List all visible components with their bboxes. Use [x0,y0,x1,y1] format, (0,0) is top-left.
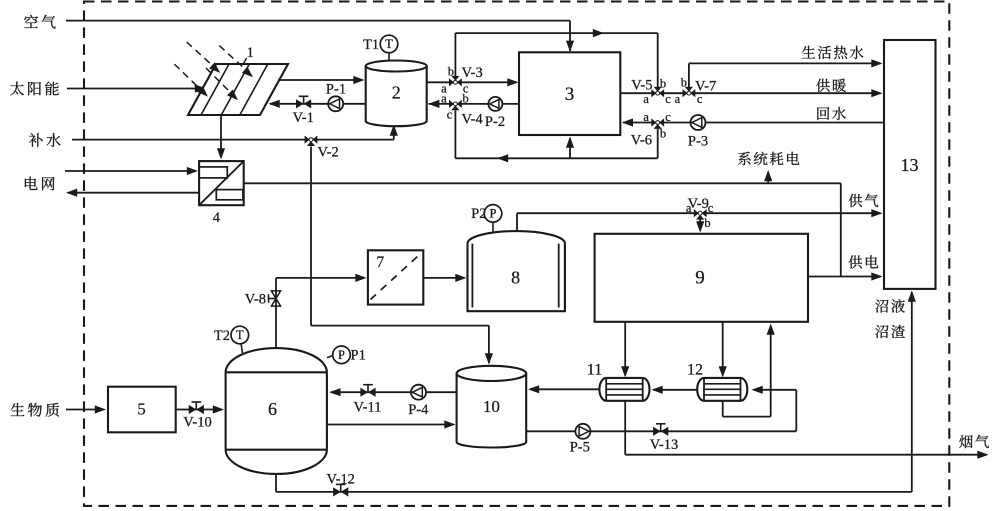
wire digester 6 bottom digestate line [275,473,277,492]
svg-text:P-1: P-1 [326,82,346,98]
arrow grid export [66,189,77,197]
svg-text:a: a [643,110,649,124]
svg-text:V-10: V-10 [183,414,211,430]
label makeup water (bushui) [29,133,43,147]
svg-text:V-8: V-8 [245,291,266,307]
wire V-6 b drop [657,129,659,158]
label power supply (gongdian) [849,255,863,268]
svg-text:c: c [447,108,453,122]
sun ray 4 [206,68,231,93]
svg-text:P-3: P-3 [688,133,708,149]
wire makeup water line [72,139,394,141]
arrow air into unit 3 [566,41,574,52]
wire V-8 to unit 7 [275,278,277,291]
svg-text:P2: P2 [471,206,486,222]
wire return water line [623,122,884,124]
valve V-7 [683,89,688,97]
wire digester 6 to tank 10 [327,424,453,426]
svg-text:V-11: V-11 [354,399,382,415]
svg-text:4: 4 [213,210,221,226]
heat supply unit 3 [519,52,620,135]
svg-text:12: 12 [687,362,703,379]
collector stripes [201,64,229,115]
wire CHP 9 to HX 12 [722,322,724,376]
pretreatment unit 5 [108,387,176,433]
svg-text:9: 9 [695,267,705,288]
label air (kongqi) [24,15,38,28]
svg-text:V-2: V-2 [318,144,339,160]
wire CHP 9 to HX 11 [624,322,626,376]
wire HX 12 to HX 11 [654,389,698,391]
svg-text:a: a [441,92,447,106]
valve V-10 [189,405,197,414]
svg-text:P-4: P-4 [408,402,429,418]
valve V-3 [449,78,454,86]
svg-text:V-4: V-4 [462,111,484,127]
wire riser into unit 3 bottom [569,139,571,159]
valve V-5 [651,89,656,97]
wire power supply to user 13 [808,276,881,278]
label domestic hot water (shenghuoreshui) [802,46,815,59]
temperature sensor T1 [388,53,390,62]
svg-text:V-6: V-6 [631,132,652,148]
svg-text:7: 7 [376,254,384,271]
arrow system power consumption [767,172,769,183]
wire grid output [68,192,199,194]
pump P-2 [488,97,502,111]
valve V-6 [651,118,656,126]
svg-text:3: 3 [565,84,575,105]
label grid (dianwang) [25,177,38,190]
svg-text:T1: T1 [363,37,379,53]
label return water (huishui) [817,107,829,120]
wire unit 3 to heating supply [620,92,880,94]
pump P-3 [691,115,706,130]
svg-text:P1: P1 [351,348,366,364]
valve V-1 [296,99,304,108]
heat exchanger 11 [606,378,643,401]
svg-text:P-5: P-5 [570,439,590,455]
wire unit 3 to tank 2 return [429,103,520,105]
svg-text:5: 5 [137,400,146,419]
temperature sensor T2 [241,344,243,354]
svg-text:a: a [675,92,681,106]
svg-text:6: 6 [268,399,277,419]
wire unit 7 to gas holder 8 [423,277,464,279]
label heating supply (gongnuan) [816,79,830,92]
svg-text:11: 11 [587,362,602,379]
hot water tank 2 [366,66,427,126]
wire air line [66,20,570,22]
wire HX 11 to tank 10 [530,388,599,390]
wire V-4 c return loop [454,111,456,159]
storage tank 10 [457,373,527,447]
arrow grid into inverter 4 [187,167,198,175]
wire solar input [67,88,203,90]
valve V-11 [360,388,368,397]
svg-text:V-3: V-3 [462,65,483,81]
svg-text:T: T [385,37,393,51]
svg-text:T2: T2 [214,328,230,344]
wire digestate riser into 13 [911,292,913,492]
pump P-5 [575,424,590,439]
valve V-12 [333,487,341,496]
heat exchanger 12 [704,378,741,401]
wire V-9 b into CHP 9 [699,220,701,231]
svg-text:c: c [665,110,671,124]
wire HX 11 flue to stack [624,401,626,455]
svg-text:b: b [660,77,666,91]
svg-text:1: 1 [247,45,254,61]
valve V-2 [305,136,310,144]
svg-text:a: a [643,92,649,106]
svg-text:b: b [660,126,666,140]
wire tank 10 to digester 6 [331,391,457,393]
svg-text:13: 13 [901,155,919,175]
svg-text:V-13: V-13 [650,437,678,453]
valve V-4 [449,100,454,108]
sun ray 2 [219,46,245,70]
label system power (xitonghaodian) [738,152,751,165]
valve V-8 [271,291,280,299]
svg-text:b: b [704,216,710,230]
wire V-2 drop to tank 10 [310,147,312,326]
pump P-4 [411,385,426,400]
pump P-1 [328,96,343,111]
wire tank 2 to unit 3 [427,81,516,83]
wire digester 6 to V-8 riser [275,291,277,348]
svg-text:T: T [236,328,244,342]
arrow solar into collector 1 [195,84,206,92]
user terminal 13 [884,40,936,289]
arrow makeup into tank 2 [390,125,398,136]
svg-text:c: c [665,92,671,106]
wire collector to tank 2 [278,79,362,81]
valve V-13 [653,427,661,436]
label solar (taiyangneng) [10,82,24,96]
wire tank 10 to V-13 heating loop [526,430,796,432]
wire HX 12 outlet loop to CHP 9 [722,401,724,417]
svg-text:V-1: V-1 [293,110,314,126]
sun ray 1 [187,42,213,66]
svg-text:V-9: V-9 [688,196,709,212]
wire V-3 b bypass over unit 3 [454,33,456,76]
pressure sensor P2 [492,222,494,232]
svg-text:V-7: V-7 [695,78,716,94]
svg-text:P: P [338,348,345,362]
wire collector to inverter 4 [220,115,222,157]
wire gas holder 8 to V-9 gas line [516,213,518,231]
wire biomass input [66,409,103,411]
label biomass (shengwuzhi) [11,403,25,416]
svg-text:8: 8 [511,268,520,288]
wire grid input [65,170,196,172]
pressure sensor P1 [327,355,334,358]
wire riser into HX 12 [795,390,797,432]
svg-text:P-2: P-2 [485,114,505,130]
wire electric bus from inverter 4 [244,182,841,184]
svg-text:P: P [490,207,497,221]
gas holder 8 [468,243,565,311]
svg-text:V-5: V-5 [631,78,652,94]
label biogas slurry residue (zhaoye zhaozha) [875,300,888,313]
purifier 7 [368,250,423,304]
svg-text:V-12: V-12 [326,471,354,487]
wire unit 5 to digester 6 [176,409,222,411]
digester 6 [226,372,327,449]
CHP unit 9 [595,234,808,322]
inverter 4 [199,161,244,205]
solar collector 1 body [188,64,288,115]
sun ray 3 [174,64,200,89]
wire V-7 b to domestic hot water [688,63,690,87]
svg-text:2: 2 [392,83,401,103]
svg-text:b: b [462,92,468,106]
arrow biomass into unit 5 [95,405,106,413]
label gas supply (gongqi) [849,194,863,207]
svg-text:b: b [448,64,454,78]
valve V-9 [694,209,699,217]
svg-text:b: b [681,76,687,90]
wire tank 2 to collector return [270,103,366,105]
svg-text:10: 10 [483,397,500,416]
label flue gas (yanqi) [959,435,972,448]
